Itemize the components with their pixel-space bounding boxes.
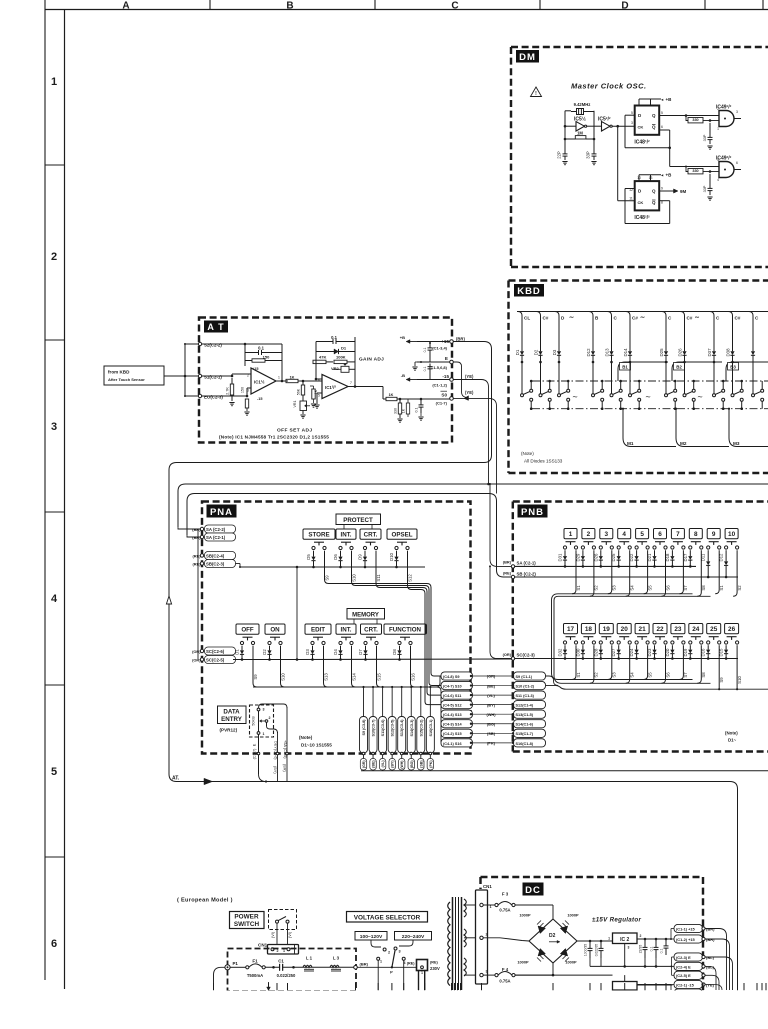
svg-text:D17: D17	[683, 553, 688, 561]
KBD key column 3 note D	[555, 312, 559, 346]
svg-text:0.75A: 0.75A	[499, 979, 510, 984]
svg-text:D3: D3	[305, 649, 310, 655]
ground (rail)	[415, 361, 421, 363]
connector C3 pin S13(C3-4)	[401, 687, 403, 716]
selector contact 1	[377, 957, 380, 960]
KBD key column 1 note CL	[518, 312, 522, 346]
svg-text:Q: Q	[652, 189, 656, 194]
diode D3	[312, 646, 314, 651]
wire diode D37 to bus	[713, 362, 715, 394]
wire signal S16	[411, 646, 415, 687]
svg-text:D15: D15	[719, 648, 724, 656]
POWER SWITCH label box	[230, 912, 265, 929]
svg-text:Q: Q	[652, 125, 656, 130]
terminal SB(C2-3) (RE)	[200, 562, 203, 565]
KBD key column 7 note C	[662, 312, 666, 346]
wire signal S9 (row2)	[718, 645, 720, 689]
KBD key column 6 note C#	[626, 312, 630, 346]
capacitor 0.022/35	[600, 941, 602, 948]
terminal SC(C2-6) (OR)	[200, 649, 203, 652]
wire diode D25 to bus	[665, 362, 667, 394]
bridge rectifier D2	[529, 919, 577, 963]
svg-text:1000P: 1000P	[519, 913, 531, 918]
svg-text:A: A	[122, 1, 129, 12]
svg-text:3: 3	[628, 946, 630, 950]
connector row (C4-1) S16 / S16(C1-8)	[441, 739, 473, 747]
svg-text:330: 330	[394, 408, 398, 414]
svg-text:(C1-3,4): (C1-3,4)	[432, 346, 447, 351]
KBD bus B2	[672, 362, 722, 381]
svg-text:S2: S2	[737, 585, 742, 591]
svg-text:E: E	[253, 743, 257, 746]
diode D10	[396, 551, 398, 557]
diode D27	[618, 645, 620, 649]
wire signal S2 (row2)	[590, 645, 594, 683]
diode D21	[654, 550, 656, 556]
svg-text:(PK): (PK)	[487, 741, 496, 746]
svg-text:2: 2	[51, 251, 57, 263]
svg-text:D25: D25	[611, 553, 616, 561]
svg-text:D3: D3	[552, 349, 557, 355]
svg-text:D5: D5	[306, 554, 311, 560]
wire regulator to +15 rail	[637, 938, 671, 940]
opamp2 feedback network	[315, 358, 317, 379]
svg-text:(SB): (SB)	[487, 731, 496, 736]
wire -15 rows join	[671, 984, 674, 986]
pushbutton 21	[635, 624, 649, 634]
svg-text:3: 3	[736, 110, 738, 114]
wire signal S7 (row1)	[679, 550, 683, 594]
wire signal S5 (row2)	[644, 645, 648, 679]
svg-text:S1: S1	[576, 672, 581, 678]
svg-text:0.1: 0.1	[423, 348, 427, 353]
svg-text:S16: S16	[410, 673, 415, 681]
svg-text:0.022/250: 0.022/250	[277, 973, 296, 978]
svg-text:2: 2	[269, 716, 271, 720]
pushbutton 17	[564, 624, 578, 634]
diode D24	[636, 645, 638, 649]
svg-text:C#: C#	[543, 316, 549, 321]
pushbutton INT.	[336, 529, 356, 539]
diode D11	[707, 550, 709, 561]
diode D39 (edge)	[752, 345, 754, 351]
svg-text:CN1: CN1	[483, 884, 492, 889]
diode D18	[671, 550, 673, 556]
wire PNB SB row	[515, 576, 738, 578]
svg-text:All Diodes 1SS133: All Diodes 1SS133	[524, 459, 563, 464]
svg-text:D2: D2	[533, 349, 538, 355]
wire junction drop x297	[296, 567, 298, 660]
svg-text:PNA: PNA	[210, 507, 233, 518]
potentiometer PVR12 dashed box	[250, 705, 274, 737]
svg-text:17: 17	[567, 626, 575, 633]
svg-text:After Touch Sensor: After Touch Sensor	[108, 377, 145, 382]
svg-text:(RE): (RE)	[503, 571, 512, 576]
svg-text:(BE): (BE)	[487, 683, 496, 688]
DC output (C2-4) E (BL)	[674, 962, 703, 970]
AT block dashed border	[199, 318, 452, 443]
100~120V label box	[355, 932, 387, 941]
svg-text:1: 1	[51, 76, 57, 88]
svg-text:D24: D24	[629, 648, 634, 656]
diode D20	[671, 645, 673, 649]
supply arrow +B	[410, 341, 417, 343]
connector row (C4-7) S10 / S10 (C1-2)	[441, 681, 473, 689]
svg-text:FUNCTION: FUNCTION	[389, 627, 421, 634]
svg-text:S14(C1-6): S14(C1-6)	[516, 723, 534, 727]
wire diode D26 to bus	[684, 362, 686, 394]
svg-text:D19: D19	[683, 648, 688, 656]
column tick marks	[209, 0, 211, 10]
svg-text:DC: DC	[525, 885, 541, 896]
svg-text:2: 2	[486, 933, 488, 937]
svg-text:SC(C2-5): SC(C2-5)	[206, 658, 225, 663]
wire bus M3	[729, 409, 768, 447]
border frame left ruler	[44, 10, 46, 981]
terminal PNB SA (C2-1) (BR)	[511, 565, 514, 568]
KBD bus B3	[726, 362, 768, 381]
svg-text:5: 5	[51, 766, 57, 778]
svg-text:GAIN ADJ: GAIN ADJ	[359, 357, 384, 363]
svg-text:F 3: F 3	[502, 892, 509, 897]
svg-text:from KBD: from KBD	[108, 370, 130, 375]
bus wire lower (y=770.7)	[361, 770, 768, 772]
svg-text:-15: -15	[257, 397, 263, 401]
svg-text:0.1: 0.1	[423, 367, 427, 372]
pushbutton 2	[582, 529, 595, 539]
svg-text:(C4-4) S13: (C4-4) S13	[443, 713, 462, 717]
svg-text:D12: D12	[586, 348, 591, 357]
row tick marks	[45, 164, 65, 166]
svg-text:P1: P1	[233, 961, 239, 966]
node clock out	[612, 125, 635, 127]
svg-text:2.7K: 2.7K	[226, 387, 230, 395]
svg-text:INT.: INT.	[341, 627, 352, 634]
wire diode D12 to bus	[592, 362, 594, 394]
svg-text:D38: D38	[725, 348, 730, 357]
wire selector main	[357, 966, 416, 968]
diode D37	[713, 345, 715, 351]
svg-text:PNB: PNB	[521, 507, 544, 518]
terminal SA(C2-1) (BR)	[200, 535, 203, 538]
svg-text:5: 5	[631, 111, 633, 115]
pushbutton CRT.	[361, 624, 382, 634]
wire 1M loop	[565, 138, 575, 140]
svg-text:Q: Q	[652, 200, 656, 205]
power switch dashed box	[269, 910, 297, 930]
ground (22P)	[562, 161, 567, 163]
svg-text:VOLTAGE SELECTOR: VOLTAGE SELECTOR	[354, 915, 421, 922]
svg-text:6: 6	[736, 161, 738, 165]
svg-text:(WH): (WH)	[486, 712, 496, 717]
svg-text:S10: S10	[280, 673, 285, 681]
svg-text:(C1-1) +15: (C1-1) +15	[676, 926, 696, 931]
wire signal S3 (row1)	[608, 550, 612, 594]
wire signal S6 (row2)	[662, 645, 666, 683]
svg-text:3: 3	[605, 531, 609, 538]
diode D32	[564, 645, 566, 649]
PNA block label	[207, 505, 237, 518]
svg-text:6: 6	[661, 125, 663, 129]
KBD lower key bus (dash-dot)	[532, 408, 768, 410]
svg-text:S12(C1-4): S12(C1-4)	[516, 704, 534, 708]
wire opamp2 output	[348, 386, 383, 388]
wire bridge + rail	[577, 940, 613, 942]
direction arrow (AT feed)	[204, 778, 213, 784]
bus wire SB (y=493.5)	[187, 494, 512, 578]
svg-text:IC48²/²: IC48²/²	[634, 215, 650, 221]
svg-text:1K: 1K	[402, 408, 406, 413]
svg-text:OFF SET ADJ: OFF SET ADJ	[277, 428, 312, 434]
KBD block label	[514, 284, 544, 297]
terminal EO(C2-3)	[198, 394, 201, 397]
svg-text:(GR): (GR)	[362, 761, 366, 769]
svg-text:0.1: 0.1	[660, 949, 664, 954]
svg-text:(C1-1,2): (C1-1,2)	[432, 383, 447, 388]
svg-text:CRT.: CRT.	[364, 532, 378, 539]
svg-text:D27: D27	[611, 648, 616, 656]
svg-text:(C2-4) E: (C2-4) E	[676, 964, 691, 969]
svg-text:1000P: 1000P	[565, 960, 577, 965]
svg-text:SA (C2-1): SA (C2-1)	[517, 561, 537, 566]
connector row (C4-4) S13 / S13(C1-5)	[441, 710, 473, 718]
svg-text:S14: S14	[351, 673, 356, 681]
connector row (C4-2) S15 / S15(C1-7)	[441, 729, 473, 737]
KBD key column 2 note C#	[537, 312, 541, 346]
svg-text:2: 2	[717, 107, 719, 111]
svg-text:D22: D22	[629, 553, 634, 561]
svg-text:(C4-3) S14: (C4-3) S14	[443, 723, 462, 727]
key switch M contact col 7	[665, 394, 668, 397]
svg-text:L 1: L 1	[306, 956, 313, 961]
wire 230V down	[418, 971, 420, 991]
wire signal S1 (row1)	[572, 550, 576, 594]
svg-text:S10: S10	[351, 574, 356, 582]
potentiometer wiper	[265, 720, 268, 723]
svg-text:S2: S2	[594, 585, 599, 591]
transformer T1	[452, 897, 454, 990]
diode D38	[732, 345, 734, 351]
wire signal S11	[376, 551, 441, 695]
capacitor 1000/35	[589, 941, 591, 948]
diode D25	[665, 345, 667, 351]
key switch M contact col 3	[558, 394, 561, 397]
svg-text:D1: D1	[515, 349, 520, 355]
svg-text:D14: D14	[623, 348, 628, 357]
connector C3 pin S11(C3-6)	[382, 687, 384, 716]
op-amp IC1 2/2	[322, 375, 348, 399]
svg-text:S3: S3	[612, 672, 617, 678]
pushbutton FUNCTION	[384, 624, 426, 634]
svg-text:D37: D37	[707, 348, 712, 357]
svg-text:Q: Q	[652, 113, 656, 118]
pushbutton CRT.	[360, 529, 381, 539]
wire F3 to bridge	[515, 904, 553, 906]
svg-text:∼: ∼	[569, 315, 574, 321]
capacitor 33P (a)	[709, 123, 711, 133]
key switch M contact col 5	[610, 394, 613, 397]
wire S10 row to right bus	[546, 685, 557, 687]
svg-text:IC5²/²: IC5²/²	[598, 117, 611, 123]
svg-text:33P: 33P	[703, 134, 707, 141]
svg-text:SA (C2-1): SA (C2-1)	[206, 535, 226, 540]
wire FF2 feedback Qbar to D	[659, 200, 670, 202]
supply rail caps	[417, 341, 450, 343]
svg-text:1: 1	[717, 127, 719, 131]
svg-text:D12: D12	[719, 553, 724, 561]
supply arrow -B	[410, 379, 417, 381]
svg-text:S15(C3-2): S15(C3-2)	[419, 719, 423, 737]
wire signal S8 (row2)	[697, 645, 701, 683]
wire -15 rail	[515, 974, 612, 976]
svg-text:INT.: INT.	[341, 532, 352, 539]
svg-text:T500mA: T500mA	[247, 973, 263, 978]
svg-text:26: 26	[728, 626, 736, 633]
wire FF1 feedback Qbar to D	[659, 129, 670, 131]
capacitor 0.1 (reg1)	[655, 939, 657, 947]
warning triangle	[531, 87, 542, 97]
wire switch to CN1 (VI)	[276, 923, 278, 944]
key switch M contact col 8	[683, 394, 686, 397]
svg-text:L 3: L 3	[333, 956, 340, 961]
svg-text:+B: +B	[666, 97, 673, 102]
svg-text:(BY): (BY)	[273, 766, 277, 774]
DC output (C1-1) +15 (BR)	[674, 924, 703, 932]
wire FF1 Q output	[659, 115, 719, 117]
diode D30	[582, 645, 584, 649]
svg-text:4: 4	[622, 531, 626, 538]
key switch edge col	[752, 394, 755, 397]
wire E rows join	[672, 956, 675, 958]
diode D15	[725, 645, 727, 649]
svg-text:(C2-1) -15: (C2-1) -15	[676, 982, 695, 987]
svg-text:47K: 47K	[319, 355, 326, 360]
svg-text:(VL): (VL)	[487, 693, 495, 698]
dashed line-filter box	[228, 949, 357, 992]
svg-text:S4: S4	[630, 585, 635, 591]
selector arm P	[392, 951, 395, 968]
wire opamp1 inputs	[202, 375, 232, 377]
terminal PNB SB (C2-2) (RE)	[511, 575, 514, 578]
key switch M contact col 2	[539, 394, 542, 397]
svg-text:C#: C#	[735, 316, 741, 321]
svg-text:SWITCH: SWITCH	[234, 921, 260, 928]
svg-text:IC 2: IC 2	[620, 937, 629, 943]
capacitor 22/35	[644, 939, 646, 947]
bus wire row2 collectors	[558, 679, 693, 681]
svg-text:330: 330	[692, 169, 698, 173]
wire signal S7 (row2)	[679, 645, 683, 679]
svg-text:S16(C1-8): S16(C1-8)	[516, 742, 534, 746]
svg-text:AT.: AT.	[172, 776, 180, 782]
svg-text:19: 19	[603, 626, 611, 633]
svg-text:-B: -B	[401, 373, 405, 378]
svg-text:D1~: D1~	[728, 738, 737, 743]
svg-text:(C4-8) S9: (C4-8) S9	[443, 675, 459, 679]
svg-text:20: 20	[621, 626, 629, 633]
ground (2.7K)	[229, 402, 234, 404]
svg-text:(WH): (WH)	[400, 761, 404, 769]
svg-text:B2: B2	[676, 365, 682, 370]
wire IC2 pin3	[624, 944, 626, 967]
wire S0 YE drop	[453, 398, 496, 493]
svg-text:IC48¹/²: IC48¹/²	[634, 140, 650, 146]
svg-text:D1: D1	[341, 346, 347, 351]
svg-text:DATA: DATA	[223, 709, 240, 716]
pushbutton ON	[265, 624, 285, 634]
svg-text:2: 2	[388, 951, 390, 955]
diode D12	[592, 345, 594, 351]
pushbutton 7	[671, 529, 684, 539]
DC output (C2-1) -15 (YE)	[674, 980, 703, 988]
wire S9 row curve	[546, 676, 559, 686]
wire S bus to C4 connector	[436, 676, 441, 687]
svg-text:(C4-1) S16: (C4-1) S16	[443, 742, 462, 746]
PNB block dashed border	[513, 500, 768, 502]
diode D8	[399, 646, 401, 651]
svg-text:D4: D4	[333, 649, 338, 655]
diode D13	[611, 345, 613, 351]
flip-flop IC48 1/2	[635, 106, 660, 135]
svg-text:D16: D16	[701, 648, 706, 656]
svg-text:B1: B1	[622, 365, 628, 370]
wire signal S3 (row2)	[608, 645, 612, 679]
svg-text:S12(C3-5): S12(C3-5)	[391, 719, 395, 737]
wire FF1 +B supply	[638, 99, 640, 106]
svg-text:S6: S6	[665, 585, 670, 591]
VOLTAGE SELECTOR label box	[347, 912, 428, 923]
svg-text:0.1: 0.1	[415, 408, 419, 413]
wire F4 to bridge	[515, 974, 553, 976]
PROTECT group label	[336, 514, 381, 525]
terminal S1(C2-1)	[198, 374, 201, 377]
svg-text:S13: S13	[323, 673, 328, 681]
svg-text:A T: A T	[207, 322, 224, 332]
svg-text:(BR): (BR)	[192, 527, 201, 532]
svg-text:POWER: POWER	[234, 914, 259, 921]
svg-text:D: D	[621, 1, 628, 12]
pushbutton 1	[564, 529, 577, 539]
ground rail to E rows	[625, 965, 672, 967]
wire signal S10	[352, 551, 442, 686]
wire DC outputs curls	[705, 929, 726, 991]
pushbutton 4	[618, 529, 631, 539]
svg-text:S5: S5	[647, 585, 652, 591]
svg-text:E: E	[445, 356, 448, 361]
pushbutton 5	[636, 529, 649, 539]
wire diode D1 to bus	[521, 362, 523, 394]
wire main line	[230, 966, 246, 968]
wire bus M2	[676, 409, 729, 447]
svg-text:(SB): (SB)	[419, 761, 423, 768]
wire signal S8 (row1)	[697, 550, 701, 596]
svg-text:(C4-7) S10: (C4-7) S10	[443, 684, 462, 688]
svg-text:(BG): (BG)	[410, 761, 414, 769]
svg-text:D21: D21	[647, 553, 652, 561]
diode D22	[636, 550, 638, 556]
svg-text:VR1: VR1	[293, 401, 297, 408]
connector row (C4-3) S14 / S14(C1-6)	[441, 720, 473, 728]
svg-text:S1: S1	[719, 585, 724, 591]
wire signal S1 (row2)	[572, 645, 576, 679]
KBD key column 4 note B	[589, 312, 593, 346]
svg-text:S5: S5	[647, 672, 652, 678]
diode D14	[629, 345, 631, 351]
KBD key column 8 note C#	[681, 312, 685, 346]
connector row (C4-8) S9 / S9 (C1-1)	[441, 672, 473, 680]
svg-text:VR2: VR2	[331, 366, 340, 371]
svg-text:DM: DM	[519, 52, 536, 63]
